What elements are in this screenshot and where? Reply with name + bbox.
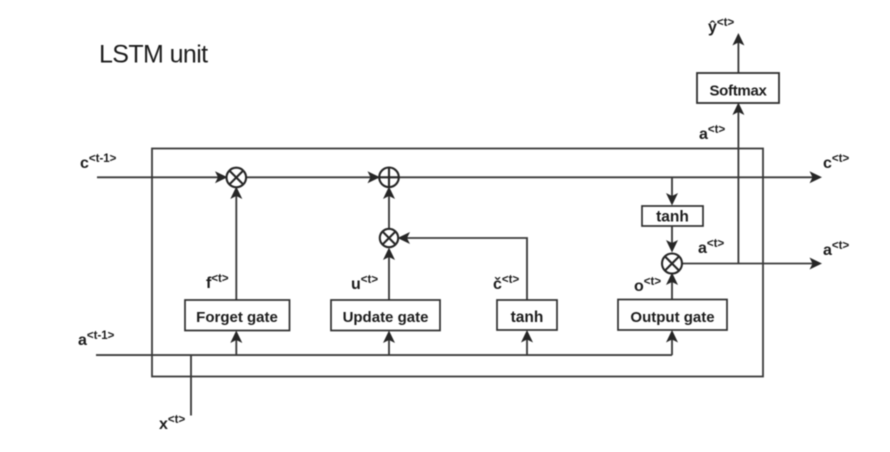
svg-text:LSTM unit: LSTM unit xyxy=(99,41,208,69)
wire: c^<t-1> memory line (horizontal) xyxy=(97,176,815,178)
arrowhead: candidate into multiply node xyxy=(398,232,411,244)
wire: a-line up into Update gate xyxy=(388,334,390,355)
svg-text:a<t-1>: a<t-1> xyxy=(78,330,115,349)
node: multiply (forget) on c line xyxy=(227,168,247,188)
arrowhead: into Output gate xyxy=(666,330,678,343)
arrowhead: forget line into multiply node xyxy=(230,187,242,200)
arrowhead: into Forget gate xyxy=(230,331,242,344)
wire: Softmax up to y-hat output xyxy=(737,38,739,73)
node: multiply (output) xyxy=(662,254,682,274)
box: Output gate xyxy=(618,300,727,331)
arrowhead: output gate into multiply node xyxy=(666,273,678,286)
wire: Update gate up to multiply node xyxy=(388,251,390,301)
arrowhead: update multiply into plus node xyxy=(383,187,395,200)
box: Update gate xyxy=(331,300,440,331)
wire: forget gate to multiply node xyxy=(235,190,237,300)
wire: candidate tanh up and left to multiply node xyxy=(403,238,527,300)
svg-text:x<t>: x<t> xyxy=(159,414,185,433)
svg-text:Update gate: Update gate xyxy=(343,309,429,326)
wire: a-line up into Forget gate xyxy=(235,334,237,355)
arrowhead: y-hat output xyxy=(732,33,744,46)
box: candidate tanh xyxy=(497,300,557,330)
svg-text:ŷ<t>: ŷ<t> xyxy=(708,17,734,36)
wire: tanh box down to output multiply node xyxy=(671,226,673,251)
arrowhead: into multiply node on c line xyxy=(215,171,228,183)
arrowheads xyxy=(215,33,822,343)
svg-text:Output gate: Output gate xyxy=(630,309,714,326)
svg-text:č<t>: č<t> xyxy=(493,274,519,293)
box: Softmax xyxy=(697,73,779,103)
wire: c line down into tanh box xyxy=(671,177,673,203)
svg-text:c<t-1>: c<t-1> xyxy=(80,153,117,172)
wire: x^<t> input drop line xyxy=(190,355,192,415)
svg-text:f<t>: f<t> xyxy=(206,273,229,292)
svg-text:c<t>: c<t> xyxy=(823,153,849,172)
node: multiply (update x candidate) xyxy=(380,229,398,247)
wire: a-line up into candidate tanh xyxy=(526,333,528,355)
arrowhead: into candidate tanh xyxy=(521,330,533,343)
arrowhead: into plus node on c line xyxy=(368,171,381,183)
arrowhead: c line into tanh box xyxy=(666,193,678,206)
node: plus (update) on c line xyxy=(379,168,399,188)
svg-text:tanh: tanh xyxy=(656,209,689,226)
svg-text:u<t>: u<t> xyxy=(351,274,378,293)
arrowhead: c^<t> output xyxy=(810,171,823,183)
box: Forget gate xyxy=(185,300,290,331)
svg-text:o<t>: o<t> xyxy=(634,276,661,295)
arrowhead: tanh into output multiply node xyxy=(666,240,678,253)
wire: a^<t> output line xyxy=(682,263,815,265)
wire: a^<t-1> input line (horizontal) xyxy=(96,354,672,356)
wire: Output gate up to output multiply node xyxy=(671,277,673,301)
svg-text:tanh: tanh xyxy=(511,309,544,326)
arrowhead: update line into multiply node xyxy=(383,248,395,261)
svg-text:a<t>: a<t> xyxy=(823,240,849,259)
svg-text:a<t>: a<t> xyxy=(698,238,724,257)
arrowhead: into Update gate xyxy=(383,331,395,344)
svg-text:Softmax: Softmax xyxy=(709,83,767,100)
LSTM cell boundary rectangle xyxy=(152,149,763,377)
arrowhead: into Softmax xyxy=(732,103,744,116)
wire: a-line up into Output gate xyxy=(671,333,673,355)
svg-text:Forget gate: Forget gate xyxy=(196,309,278,326)
arrowhead: a^<t> output xyxy=(810,258,823,270)
wire: multiply node up to plus node xyxy=(388,190,390,229)
wire: branch up to Softmax xyxy=(737,106,739,264)
svg-text:a<t>: a<t> xyxy=(699,124,725,143)
box: output tanh xyxy=(642,206,703,226)
